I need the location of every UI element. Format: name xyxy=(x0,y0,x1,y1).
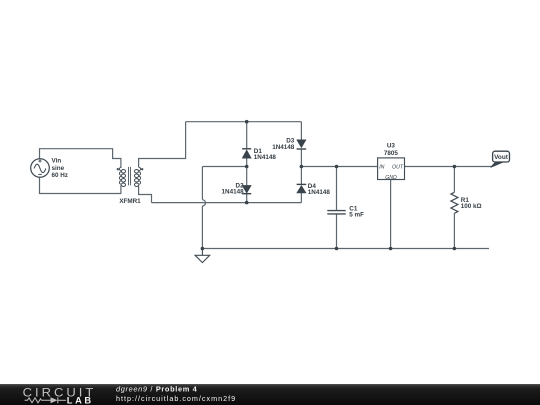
wire right branch middle xyxy=(300,149,302,184)
svg-text:1N4148: 1N4148 xyxy=(272,144,295,151)
wire bridge bottom xyxy=(152,202,302,204)
junction D2 bottom xyxy=(245,201,249,205)
svg-text:OUT: OUT xyxy=(392,165,404,171)
diode D1 xyxy=(242,149,251,158)
wire R1 leads xyxy=(453,167,455,249)
regulator U3 box xyxy=(378,158,405,180)
transformer XFMR1 xyxy=(119,167,140,187)
voltage source V1 Vin xyxy=(31,159,50,178)
label U3 7805 xyxy=(384,143,399,157)
wire bridge output to U3 xyxy=(301,166,377,168)
svg-text:1N4148: 1N4148 xyxy=(308,189,331,196)
svg-text:sine: sine xyxy=(52,165,65,172)
svg-text:1N4148: 1N4148 xyxy=(254,154,277,161)
wire ground rail xyxy=(202,248,489,250)
wire primary bottom xyxy=(40,177,121,193)
svg-text:5 mF: 5 mF xyxy=(349,212,364,219)
wire right branch upper xyxy=(300,122,302,140)
svg-text:1N4148: 1N4148 xyxy=(222,189,245,196)
label D3 1N4148 xyxy=(272,138,295,151)
label D4 1N4148 xyxy=(308,183,331,196)
svg-text:GND: GND xyxy=(385,175,397,181)
diode D2 xyxy=(242,186,251,194)
svg-text:U3: U3 xyxy=(387,143,396,150)
wire secondary top xyxy=(139,122,186,168)
logo circuit line with resistor and diode xyxy=(25,397,66,403)
wire primary top xyxy=(40,149,121,168)
label Vin sine 60 Hz xyxy=(52,158,68,179)
svg-text:Vin: Vin xyxy=(52,158,62,165)
label R1 100 kOhm xyxy=(461,197,482,210)
wire U3 gnd xyxy=(390,180,392,249)
capacitor C1 xyxy=(327,211,345,214)
transformer dot primary xyxy=(117,168,119,170)
footer bar xyxy=(0,384,540,405)
ground symbol xyxy=(195,249,210,263)
svg-text:60 Hz: 60 Hz xyxy=(52,172,68,179)
junction R1 bottom xyxy=(453,247,457,251)
transformer dot secondary xyxy=(141,168,143,170)
junction C1 bottom xyxy=(335,247,339,251)
junction top rail / D1 xyxy=(245,120,249,124)
resistor R1 xyxy=(451,192,458,213)
junction D1 D2 node xyxy=(245,165,249,169)
label D1 1N4148 xyxy=(254,148,277,161)
node flag Vout xyxy=(491,151,510,167)
junction ground left xyxy=(201,247,205,251)
wire C1 leads xyxy=(336,167,338,249)
wire secondary bottom xyxy=(139,185,152,202)
label C1 5 mF xyxy=(349,205,364,218)
junction U3 gnd rail xyxy=(389,247,393,251)
svg-text:dgreen9 / Problem 4: dgreen9 / Problem 4 xyxy=(116,384,198,393)
svg-text:http://circuitlab.com/cxmn2f9: http://circuitlab.com/cxmn2f9 xyxy=(116,394,236,403)
wire mid node to ground with hop xyxy=(202,167,246,249)
wire left branch upper xyxy=(246,122,248,149)
svg-text:IN: IN xyxy=(379,165,384,171)
junction R1 top xyxy=(453,165,457,169)
wire top rail xyxy=(186,121,302,123)
diode D4 xyxy=(297,184,307,192)
wire U3 out to Vout xyxy=(405,166,491,168)
junction C1 top xyxy=(335,165,339,169)
svg-text:XFMR1: XFMR1 xyxy=(119,198,141,205)
junction D3 D4 node xyxy=(300,165,304,169)
diode D3 xyxy=(297,140,307,149)
svg-text:100 kΩ: 100 kΩ xyxy=(461,203,482,210)
svg-text:7805: 7805 xyxy=(384,150,399,157)
wire left branch lower xyxy=(246,194,248,203)
wire right branch lower xyxy=(300,193,302,203)
wire left branch middle xyxy=(246,158,248,185)
label D2 1N4148 xyxy=(222,182,245,195)
svg-text:Vout: Vout xyxy=(494,154,509,161)
svg-text:LAB: LAB xyxy=(67,395,94,405)
